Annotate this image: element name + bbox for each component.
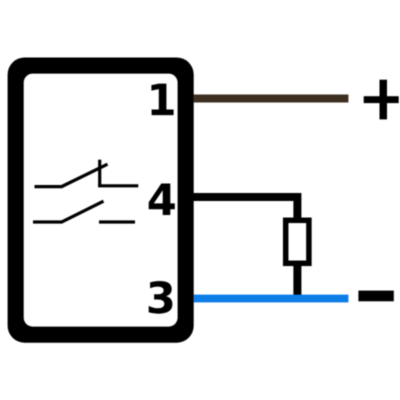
wire BU (blue, pin 3 to -) xyxy=(194,295,349,303)
switch contact NO (bottom): left lead xyxy=(33,220,62,223)
wire BN (brown, pin 1 to +) xyxy=(194,95,349,103)
switch contact NC (top): right lead xyxy=(98,184,138,187)
pin label 4 xyxy=(149,184,175,216)
sensor body box xyxy=(8,58,194,343)
wire BK vertical down to resistor xyxy=(293,193,301,219)
switch contact NC (top): terminal stop bar xyxy=(98,160,101,187)
pin label 3 xyxy=(149,281,173,314)
resistor lead bottom xyxy=(293,265,301,295)
plus terminal xyxy=(364,96,399,103)
switch contact NO (bottom): blade xyxy=(61,201,104,222)
minus terminal xyxy=(358,291,393,302)
wire BK (black, pin 4) horizontal xyxy=(194,193,298,201)
resistor R xyxy=(286,220,309,263)
pin label 1 xyxy=(151,84,173,116)
switch contact NC (top): blade xyxy=(61,164,108,187)
switch contact NO (bottom): right lead xyxy=(99,220,135,223)
switch contact NC (top): left lead xyxy=(35,185,62,188)
